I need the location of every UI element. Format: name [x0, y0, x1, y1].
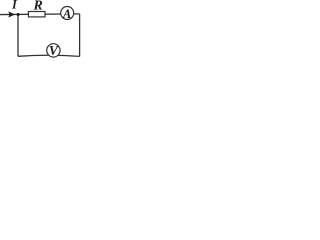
wire top horizontal [0, 13, 80, 16]
wire bottom horizontal [18, 55, 80, 56]
current arrowhead [8, 11, 15, 17]
resistor R box [28, 12, 45, 17]
wire left vertical [17, 14, 19, 56]
ammeter U1 circle [61, 7, 74, 20]
wire right vertical [79, 14, 81, 57]
svg-text:V: V [49, 43, 59, 58]
node junction dot [17, 13, 20, 16]
voltmeter U2 circle [47, 44, 60, 57]
svg-text:R: R [33, 0, 43, 14]
svg-text:I: I [11, 0, 18, 12]
svg-text:A: A [62, 7, 71, 21]
